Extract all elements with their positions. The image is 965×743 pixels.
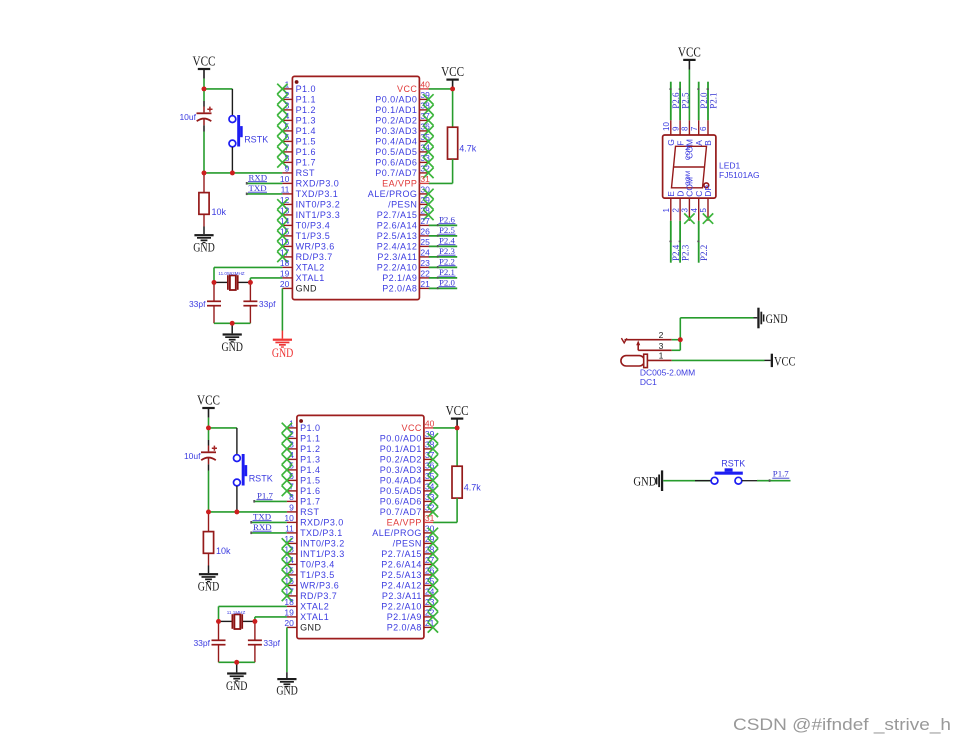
U2 pin 5 P1.4 bbox=[287, 461, 321, 476]
wire 4.7k to pin 31 EA/VPP (U1) bbox=[429, 182, 453, 184]
resistor 10k (U2) bbox=[203, 512, 213, 566]
capacitor 33pf left (U1) bbox=[207, 282, 221, 323]
svg-text:VCC: VCC bbox=[774, 353, 796, 368]
svg-text:GND: GND bbox=[766, 311, 788, 326]
no-connect X U1 pin 36 bbox=[423, 126, 433, 136]
wire U2 pin 20 to GND bbox=[286, 627, 288, 672]
svg-text:XTAL2: XTAL2 bbox=[300, 602, 329, 612]
svg-text:INT0/P3.2: INT0/P3.2 bbox=[300, 539, 345, 549]
wire RST row to MCU pin 9 (U2) bbox=[209, 511, 287, 513]
U1 pin 36 P0.3/AD3 bbox=[375, 122, 430, 137]
svg-text:P0.7/AD7: P0.7/AD7 bbox=[375, 168, 417, 178]
svg-text:19: 19 bbox=[280, 269, 290, 279]
no-connect X U2 pin 28 bbox=[428, 549, 438, 559]
U2 pin 1 P1.0 bbox=[287, 419, 321, 434]
U1 pin 14 T0/P3.4 bbox=[280, 216, 330, 231]
U2 pin 33 P0.6/AD6 bbox=[380, 492, 435, 507]
svg-text:18: 18 bbox=[284, 597, 294, 607]
svg-text:P1.3: P1.3 bbox=[300, 455, 320, 465]
wire GND to button (reset key) bbox=[663, 480, 711, 482]
svg-text:P0.5/AD5: P0.5/AD5 bbox=[380, 486, 422, 496]
svg-text:10: 10 bbox=[284, 513, 294, 523]
svg-text:P2.5: P2.5 bbox=[439, 225, 455, 235]
no-connect X LED1 pin 5 bbox=[703, 213, 713, 223]
U2 pin 36 P0.3/AD3 bbox=[380, 461, 435, 476]
no-connect X U2 pin 34 bbox=[428, 486, 438, 496]
svg-text:T1/P3.5: T1/P3.5 bbox=[296, 231, 331, 241]
LED1 digit segments graphic bbox=[672, 145, 709, 188]
U2 pin 38 P0.1/AD1 bbox=[380, 440, 435, 455]
svg-text:P1.2: P1.2 bbox=[300, 444, 320, 454]
svg-text:RD/P3.7: RD/P3.7 bbox=[300, 591, 337, 601]
no-connect X U2 pin 24 bbox=[428, 591, 438, 601]
svg-text:VCC: VCC bbox=[678, 45, 701, 60]
svg-text:10uf: 10uf bbox=[179, 112, 196, 122]
svg-text:P0.0/AD0: P0.0/AD0 bbox=[380, 434, 422, 444]
junction DC1 ground node bbox=[678, 337, 683, 342]
svg-text:18: 18 bbox=[280, 258, 290, 268]
push button RSTK (U2) bbox=[234, 428, 248, 512]
svg-text:P2.6/A14: P2.6/A14 bbox=[381, 560, 422, 570]
U2 pin 26 P2.5/A13 bbox=[381, 566, 434, 581]
svg-text:VCC: VCC bbox=[197, 393, 220, 408]
svg-text:10k: 10k bbox=[212, 207, 227, 217]
svg-text:1: 1 bbox=[659, 350, 664, 360]
no-connect X U2 pin 27 bbox=[428, 559, 438, 569]
no-connect X U1 pin 12 bbox=[277, 199, 287, 209]
wire TXD to pin 10 (U2) bbox=[252, 521, 287, 523]
svg-text:8: 8 bbox=[289, 492, 294, 502]
svg-text:33pf: 33pf bbox=[193, 638, 210, 648]
junction caps bottom (U2) bbox=[234, 660, 239, 665]
svg-text:8: 8 bbox=[681, 126, 690, 131]
U2 pin 11 TXD/P3.1 bbox=[285, 524, 343, 539]
svg-text:VCC: VCC bbox=[441, 64, 464, 79]
U1 pin 5 P1.4 bbox=[282, 122, 316, 137]
push button RSTK (U1) bbox=[229, 89, 243, 173]
U2 pin 37 P0.2/AD2 bbox=[380, 450, 435, 465]
junction crystal left (U2) bbox=[216, 619, 221, 624]
no-connect X U1 pin 8 bbox=[277, 157, 287, 167]
U1 pin 26 P2.5/A13 bbox=[377, 227, 430, 242]
svg-text:22: 22 bbox=[420, 269, 430, 279]
no-connect X U2 pin 5 bbox=[282, 465, 292, 475]
svg-text:4.7k: 4.7k bbox=[464, 483, 482, 493]
U1 pin 38 P0.1/AD1 bbox=[375, 101, 430, 116]
svg-text:P1.7: P1.7 bbox=[296, 158, 316, 168]
svg-text:P0.4/AD4: P0.4/AD4 bbox=[380, 476, 422, 486]
svg-text:RXD/P3.0: RXD/P3.0 bbox=[300, 518, 344, 528]
U2 pin 40 VCC bbox=[402, 419, 435, 434]
svg-text:XTAL1: XTAL1 bbox=[296, 273, 325, 283]
svg-text:INT1/P3.3: INT1/P3.3 bbox=[300, 549, 345, 559]
U1 pin 3 P1.2 bbox=[282, 101, 316, 116]
wire VCC rail down to capacitor (U2) bbox=[208, 428, 210, 440]
U1 pin 2 P1.1 bbox=[282, 90, 316, 105]
wire crystal caps bottom (U1) bbox=[214, 322, 250, 324]
wire pin 21 stub (U1) bbox=[429, 287, 457, 289]
capacitor 10uf polarized (U2) bbox=[201, 440, 217, 471]
no-connect X U1 pin 3 bbox=[277, 105, 287, 115]
svg-text:EA/VPP: EA/VPP bbox=[382, 179, 417, 189]
svg-text:11.0592MHZ: 11.0592MHZ bbox=[218, 271, 244, 276]
no-connect X U2 pin 25 bbox=[428, 580, 438, 590]
wire pin 25 stub (U1) bbox=[429, 245, 457, 247]
U2 pin 22 P2.1/A9 bbox=[387, 608, 435, 623]
wire VCC to pin 40 (U1) bbox=[429, 88, 453, 90]
wire RXD to pin 10 (U1) bbox=[247, 182, 282, 184]
wire XTAL1 pin19 to crystal (U2) bbox=[255, 617, 287, 622]
svg-text:4.7k: 4.7k bbox=[459, 144, 477, 154]
svg-text:40: 40 bbox=[425, 419, 435, 429]
svg-text:WR/P3.6: WR/P3.6 bbox=[300, 581, 339, 591]
no-connect X U2 pin 15 bbox=[282, 570, 292, 580]
U1 pin 7 P1.6 bbox=[282, 143, 316, 158]
U2 pin 23 P2.2/A10 bbox=[381, 597, 434, 612]
svg-text:P2.7/A15: P2.7/A15 bbox=[377, 210, 418, 220]
svg-text:P2.5: P2.5 bbox=[680, 92, 690, 109]
svg-text:P1.5: P1.5 bbox=[300, 476, 320, 486]
svg-text:RXD: RXD bbox=[253, 522, 272, 532]
U1 pin 21 P2.0/A8 bbox=[382, 279, 430, 294]
svg-text:9: 9 bbox=[285, 164, 290, 174]
svg-text:P2.6/A14: P2.6/A14 bbox=[377, 221, 418, 231]
U1 pin 16 WR/P3.6 bbox=[280, 237, 335, 252]
wire TXD to pin 11 (U1) bbox=[247, 193, 282, 195]
U2 pin 25 P2.4/A12 bbox=[381, 576, 434, 591]
svg-text:P1.2: P1.2 bbox=[296, 105, 316, 115]
wire LED1 top pin 7 bbox=[698, 82, 700, 121]
wire capacitor to RST rail (U1) bbox=[203, 132, 205, 173]
svg-text:P0.6/AD6: P0.6/AD6 bbox=[380, 497, 422, 507]
junction dots overlay bbox=[202, 87, 683, 665]
U1 pin 6 P1.5 bbox=[282, 132, 316, 147]
svg-text:INT0/P3.2: INT0/P3.2 bbox=[296, 200, 341, 210]
no-connect X U2 pin 4 bbox=[282, 454, 292, 464]
wire LED1 top pin 10 bbox=[670, 82, 672, 121]
svg-text:GND: GND bbox=[221, 339, 243, 354]
U1 pin 35 P0.4/AD4 bbox=[375, 132, 430, 147]
power port VCC (DC jack) bbox=[771, 354, 773, 367]
svg-text:P0.1/AD1: P0.1/AD1 bbox=[375, 105, 417, 115]
U2 pin 2 P1.1 bbox=[287, 429, 321, 444]
svg-text:33pf: 33pf bbox=[259, 299, 276, 309]
MCU U2 8051 body bbox=[297, 415, 424, 638]
no-connect X U1 pin 16 bbox=[277, 241, 287, 251]
wire RST row to MCU pin 9 (U1) bbox=[204, 172, 282, 174]
wire XTAL2 pin18 to crystal (U2) bbox=[219, 606, 287, 621]
svg-text:P2.0: P2.0 bbox=[439, 277, 455, 287]
svg-text:P0.5/AD5: P0.5/AD5 bbox=[375, 147, 417, 157]
no-connect X U2 pin 30 bbox=[428, 528, 438, 538]
svg-text:VCC: VCC bbox=[402, 423, 422, 433]
svg-text:GND: GND bbox=[300, 623, 321, 633]
no-connect X U2 pin 36 bbox=[428, 465, 438, 475]
U1 pin 22 P2.1/A9 bbox=[382, 269, 430, 284]
svg-text:RSTK: RSTK bbox=[244, 135, 268, 145]
svg-text:P1.3: P1.3 bbox=[296, 116, 316, 126]
U1 pin 34 P0.5/AD5 bbox=[375, 143, 430, 158]
svg-text:P2.7/A15: P2.7/A15 bbox=[381, 549, 422, 559]
resistor 4.7k pull-up (U1) bbox=[448, 89, 458, 183]
U2 pin 12 INT0/P3.2 bbox=[284, 534, 344, 549]
svg-text:P2.3: P2.3 bbox=[680, 244, 690, 261]
no-connect X U2 pin 39 bbox=[428, 433, 438, 443]
svg-text:TXD/P3.1: TXD/P3.1 bbox=[300, 528, 343, 538]
svg-text:31: 31 bbox=[420, 174, 430, 184]
svg-text:RSTK: RSTK bbox=[249, 474, 273, 484]
svg-text:/PESN: /PESN bbox=[388, 200, 417, 210]
svg-text:/PESN: /PESN bbox=[393, 539, 422, 549]
svg-text:P1.7: P1.7 bbox=[300, 497, 320, 507]
ground GND port (DC jack) bbox=[757, 308, 764, 329]
svg-text:P2.2/A10: P2.2/A10 bbox=[381, 602, 422, 612]
svg-text:P0.3/AD3: P0.3/AD3 bbox=[380, 465, 422, 475]
svg-text:P2.1/A9: P2.1/A9 bbox=[382, 273, 417, 283]
junction caps bottom (U1) bbox=[230, 321, 235, 326]
U2 pin 39 P0.0/AD0 bbox=[380, 429, 435, 444]
ground GND (U2 pin 20) bbox=[277, 672, 296, 687]
svg-text:P1.6: P1.6 bbox=[296, 147, 316, 157]
U1 pin 4 P1.3 bbox=[282, 111, 316, 126]
wire 4.7k to pin 31 EA/VPP (U2) bbox=[433, 521, 457, 523]
ground GND below 10k (U2) bbox=[199, 566, 218, 583]
svg-text:P1.5: P1.5 bbox=[296, 137, 316, 147]
svg-text:VCC: VCC bbox=[446, 403, 469, 418]
7-segment display LED1 FJ5101AG body bbox=[662, 120, 716, 198]
no-connect X U1 pin 38 bbox=[423, 105, 433, 115]
svg-text:10: 10 bbox=[280, 174, 290, 184]
no-connect X U2 pin 37 bbox=[428, 454, 438, 464]
svg-text:P1.0: P1.0 bbox=[296, 84, 316, 94]
U1 pin 8 P1.7 bbox=[282, 153, 316, 168]
ground GND port (reset key) bbox=[656, 470, 663, 491]
no-connect X U1 pin 28 bbox=[423, 210, 433, 220]
svg-text:P0.2/AD2: P0.2/AD2 bbox=[375, 116, 417, 126]
wire LED1 bottom pin 4 bbox=[698, 221, 700, 263]
U1 pin 24 P2.3/A11 bbox=[377, 248, 430, 263]
svg-text:RXD: RXD bbox=[249, 172, 268, 182]
svg-text:20: 20 bbox=[284, 618, 294, 628]
no-connect X U2 pin 22 bbox=[428, 612, 438, 622]
svg-text:TXD: TXD bbox=[249, 183, 267, 193]
no-connect X U2 pin 13 bbox=[282, 549, 292, 559]
no-connect X U2 pin 6 bbox=[282, 475, 292, 485]
wire DC1 pin 3 up to junction bbox=[672, 340, 681, 351]
resistor 10k (U1) bbox=[199, 173, 209, 227]
no-connect X U1 pin 14 bbox=[277, 220, 287, 230]
U1 pin 23 P2.2/A10 bbox=[377, 258, 430, 273]
svg-text:XTAL1: XTAL1 bbox=[300, 612, 329, 622]
U2 pin 6 P1.5 bbox=[287, 471, 321, 486]
svg-text:GND: GND bbox=[226, 678, 248, 693]
svg-text:27: 27 bbox=[420, 216, 430, 226]
U1 pin 11 TXD/P3.1 bbox=[281, 185, 339, 200]
svg-text:P1.0: P1.0 bbox=[300, 423, 320, 433]
no-connect X U1 pin 33 bbox=[423, 157, 433, 167]
svg-text:RD/P3.7: RD/P3.7 bbox=[296, 252, 333, 262]
U2 pin 17 RD/P3.7 bbox=[284, 587, 337, 602]
svg-text:RST: RST bbox=[296, 168, 315, 178]
svg-text:P2.1/A9: P2.1/A9 bbox=[387, 612, 422, 622]
svg-text:RSTK: RSTK bbox=[721, 459, 745, 469]
svg-text:P2.4: P2.4 bbox=[439, 235, 455, 245]
U2 pin 14 T0/P3.4 bbox=[284, 555, 334, 570]
LED1 bottom pins bbox=[662, 177, 713, 221]
svg-text:20: 20 bbox=[280, 279, 290, 289]
no-connect X U2 pin 21 bbox=[428, 622, 438, 632]
no-connect X U1 pin 15 bbox=[277, 231, 287, 241]
junction RST rail left (U1) bbox=[202, 171, 207, 176]
wire pin 24 stub (U1) bbox=[429, 256, 457, 258]
no-connect X U1 pin 13 bbox=[277, 210, 287, 220]
wire button to P1.7 (reset key) bbox=[757, 480, 791, 482]
U2 pin 3 P1.2 bbox=[287, 440, 321, 455]
svg-text:P1.7: P1.7 bbox=[773, 469, 789, 479]
svg-text:25: 25 bbox=[420, 237, 430, 247]
no-connect X U2 pin 38 bbox=[428, 444, 438, 454]
svg-text:P0.0/AD0: P0.0/AD0 bbox=[375, 95, 417, 105]
wire pin 27 stub (U1) bbox=[429, 224, 457, 226]
svg-text:P1.6: P1.6 bbox=[300, 486, 320, 496]
junction crystal right (U2) bbox=[253, 619, 258, 624]
no-connect X U2 pin 1 bbox=[282, 423, 292, 433]
svg-text:P1.7: P1.7 bbox=[257, 490, 273, 500]
no-connect X U2 pin 7 bbox=[282, 486, 292, 496]
U2 pin 10 RXD/P3.0 bbox=[284, 513, 343, 528]
no-connect X U1 pin 2 bbox=[277, 94, 287, 104]
svg-text:GND: GND bbox=[272, 345, 294, 360]
U2 pin 34 P0.5/AD5 bbox=[380, 482, 435, 497]
svg-text:21: 21 bbox=[420, 279, 430, 289]
U2 pin 28 P2.7/A15 bbox=[381, 545, 434, 560]
wire junction to GND port bbox=[680, 318, 757, 340]
capacitor 33pf left (U2) bbox=[212, 621, 226, 662]
U2 pin 35 P0.4/AD4 bbox=[380, 471, 435, 486]
junction RST rail button (U2) bbox=[235, 510, 240, 515]
wire pin 22 stub (U1) bbox=[429, 277, 457, 279]
svg-text:24: 24 bbox=[420, 248, 430, 258]
svg-text:5: 5 bbox=[699, 208, 708, 213]
no-connect X U2 pin 17 bbox=[282, 591, 292, 601]
svg-text:11.1MHZ: 11.1MHZ bbox=[227, 610, 246, 615]
svg-text:T0/P3.4: T0/P3.4 bbox=[296, 221, 331, 231]
svg-text:CSDN @#ifndef _strive_h: CSDN @#ifndef _strive_h bbox=[733, 715, 951, 734]
wire XTAL2 pin18 to crystal (U1) bbox=[214, 267, 282, 282]
no-connect X U1 pin 37 bbox=[423, 115, 433, 125]
no-connect X U2 pin 3 bbox=[282, 444, 292, 454]
svg-text:4: 4 bbox=[690, 208, 699, 213]
svg-text:23: 23 bbox=[420, 258, 430, 268]
svg-text:P2.1: P2.1 bbox=[439, 267, 455, 277]
wire VCC rail down to capacitor (U1) bbox=[203, 89, 205, 101]
U2 pin 9 RST bbox=[287, 503, 320, 518]
junction VCC/pin40 (U2) bbox=[455, 426, 460, 431]
wire crystal caps bottom (U2) bbox=[219, 661, 255, 663]
U2 pin 29 /PESN bbox=[393, 534, 435, 549]
wire pin 26 stub (U1) bbox=[429, 235, 457, 237]
junction crystal left (U1) bbox=[212, 280, 217, 285]
U1 pin 17 RD/P3.7 bbox=[280, 248, 333, 263]
no-connect X U2 pin 35 bbox=[428, 475, 438, 485]
ground GND below crystal (U1) bbox=[223, 323, 242, 342]
svg-text:P0.3/AD3: P0.3/AD3 bbox=[375, 126, 417, 136]
svg-text:P0.7/AD7: P0.7/AD7 bbox=[380, 507, 422, 517]
svg-text:7: 7 bbox=[690, 126, 699, 131]
no-connect X U1 pin 34 bbox=[423, 147, 433, 157]
junction RST rail left (U2) bbox=[206, 510, 211, 515]
U1 pin-1 marker dot bbox=[295, 80, 299, 84]
U2 pin-1 marker dot bbox=[299, 419, 303, 423]
svg-text:P2.0/A8: P2.0/A8 bbox=[382, 284, 417, 294]
svg-text:P1.4: P1.4 bbox=[296, 126, 316, 136]
U1 pin 10 RXD/P3.0 bbox=[280, 174, 339, 189]
svg-text:10uf: 10uf bbox=[184, 451, 201, 461]
U2 pin 18 XTAL2 bbox=[284, 597, 329, 612]
svg-text:P2.1: P2.1 bbox=[708, 93, 718, 109]
wire VCC to pin 40 (U2) bbox=[433, 427, 457, 429]
svg-text:3: 3 bbox=[681, 208, 690, 213]
U1 pin 29 /PESN bbox=[388, 195, 430, 210]
svg-text:GND: GND bbox=[198, 579, 220, 594]
svg-text:COM: COM bbox=[685, 145, 692, 160]
wire LED1 bottom pin 1 bbox=[670, 221, 672, 263]
no-connect X U2 pin 23 bbox=[428, 601, 438, 611]
svg-text:P2.3: P2.3 bbox=[439, 246, 455, 256]
no-connect X U2 pin 16 bbox=[282, 580, 292, 590]
U1 pin 15 T1/P3.5 bbox=[280, 227, 330, 242]
wire XTAL1 pin19 to crystal (U1) bbox=[250, 278, 282, 283]
U2 pin 31 EA/VPP bbox=[387, 513, 435, 528]
svg-text:DC005-2.0MM: DC005-2.0MM bbox=[640, 368, 695, 378]
svg-text:P2.5/A13: P2.5/A13 bbox=[377, 231, 418, 241]
svg-text:ALE/PROG: ALE/PROG bbox=[368, 189, 418, 199]
push button RSTK (reset key) bbox=[695, 468, 757, 484]
DC jack DC1 DC005-2.0MM symbol bbox=[621, 338, 672, 368]
svg-text:P2.4/A12: P2.4/A12 bbox=[377, 242, 418, 252]
wire P1.7 to pin 8 (U2) bbox=[255, 500, 287, 502]
svg-text:VCC: VCC bbox=[397, 84, 417, 94]
svg-text:6: 6 bbox=[699, 126, 708, 131]
U1 pin 30 ALE/PROG bbox=[368, 185, 430, 200]
svg-text:P0.4/AD4: P0.4/AD4 bbox=[375, 137, 417, 147]
capacitor 33pf right (U1) bbox=[243, 282, 257, 323]
U2 pin 30 ALE/PROG bbox=[372, 524, 434, 539]
svg-text:1: 1 bbox=[662, 208, 671, 213]
svg-text:P1.4: P1.4 bbox=[300, 465, 320, 475]
svg-text:DP: DP bbox=[703, 185, 713, 197]
wire LED1 top pin 9 bbox=[679, 82, 681, 121]
junction at VCC rail top (U1) bbox=[202, 87, 207, 92]
U1 pin 18 XTAL2 bbox=[280, 258, 325, 273]
svg-text:WR/P3.6: WR/P3.6 bbox=[296, 242, 335, 252]
svg-text:LED1: LED1 bbox=[719, 160, 741, 170]
svg-text:VCC: VCC bbox=[193, 54, 216, 69]
wire LED1 top pin 6 bbox=[707, 82, 709, 121]
svg-text:GND: GND bbox=[193, 240, 215, 255]
svg-text:GND: GND bbox=[633, 473, 656, 488]
ground GND red (U1 pin 20) bbox=[273, 331, 292, 348]
svg-text:GND: GND bbox=[276, 683, 298, 698]
U1 pin 40 VCC bbox=[397, 80, 430, 95]
U2 pin 13 INT1/P3.3 bbox=[284, 545, 344, 560]
svg-text:TXD: TXD bbox=[253, 511, 271, 521]
no-connect X U1 pin 35 bbox=[423, 136, 433, 146]
no-connect X U1 pin 17 bbox=[277, 252, 287, 262]
svg-text:T1/P3.5: T1/P3.5 bbox=[300, 570, 335, 580]
svg-text:10k: 10k bbox=[216, 546, 231, 556]
no-connect X U1 pin 32 bbox=[423, 168, 433, 178]
